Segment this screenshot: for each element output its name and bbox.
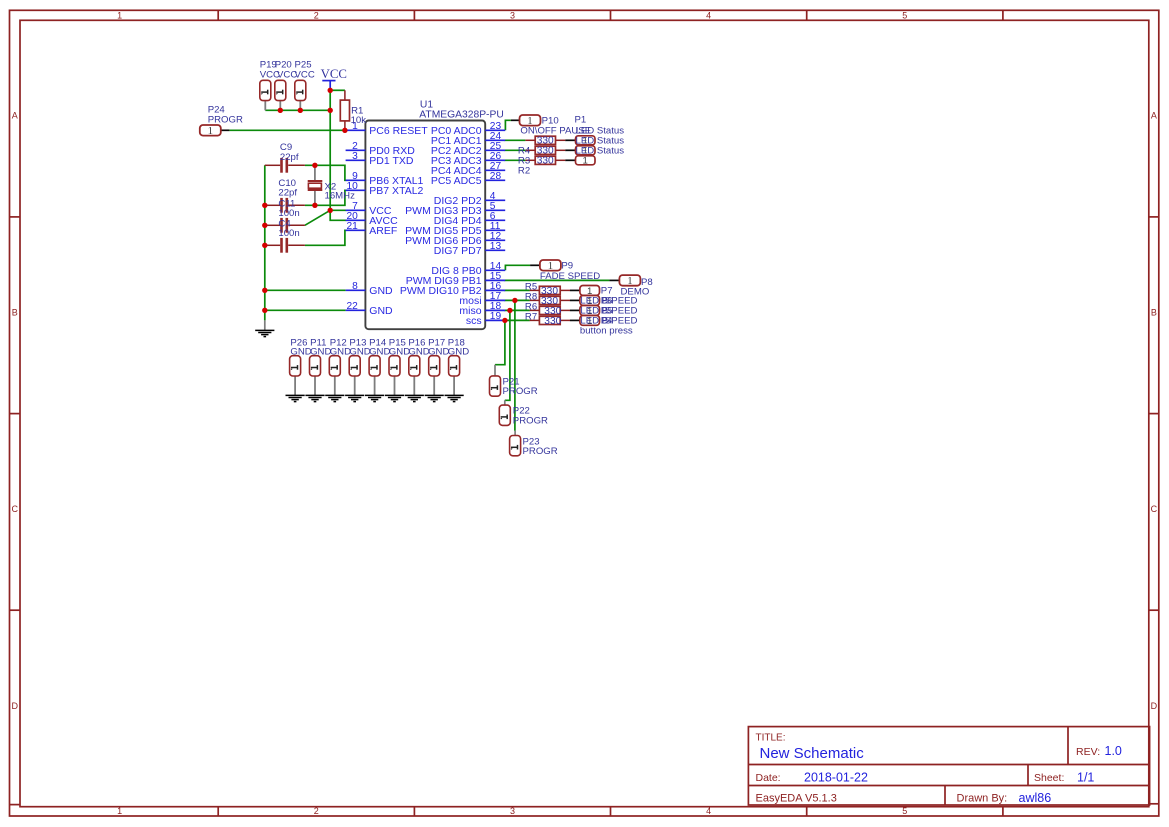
wire pin 25 to R3 xyxy=(504,149,525,151)
connector P23 PROGR xyxy=(510,436,521,456)
svg-text:C: C xyxy=(11,504,18,514)
label 22pf xyxy=(278,188,297,199)
connector P8 DEMO xyxy=(619,275,640,287)
svg-text:2: 2 xyxy=(314,806,319,816)
R4 designator xyxy=(518,145,531,156)
svg-text:PROGR: PROGR xyxy=(513,415,548,426)
svg-text:1.0: 1.0 xyxy=(1105,744,1122,758)
svg-text:PC5 ADC5: PC5 ADC5 xyxy=(431,175,482,187)
U1 pin 5 PWM DIG3 PD3 xyxy=(405,201,505,217)
svg-text:VCC: VCC xyxy=(295,69,315,80)
U1 pin 28 PC5 ADC5 xyxy=(431,171,505,187)
crystal X2 xyxy=(308,165,323,205)
U1 pin 20 AVCC xyxy=(346,211,399,227)
U1 pin 27 PC4 ADC4 xyxy=(431,161,505,177)
ground symbol P18 xyxy=(445,395,464,401)
wire pin 23 to P10 xyxy=(505,120,511,130)
svg-text:2018-01-22: 2018-01-22 xyxy=(804,771,868,785)
resistor R6 330 xyxy=(530,306,570,314)
P9 designator xyxy=(561,261,573,272)
svg-text:Drawn By:: Drawn By: xyxy=(957,793,1008,805)
svg-text:R7: R7 xyxy=(525,311,537,322)
capacitor C10 xyxy=(265,198,305,213)
svg-text:GND: GND xyxy=(369,285,393,297)
connector P25 VCC xyxy=(299,101,301,111)
wire miso down to P22 xyxy=(505,310,510,400)
P1 designator xyxy=(575,114,587,125)
wire net RESET P24 to pin 1 xyxy=(229,129,345,131)
P22 designator xyxy=(513,406,530,417)
wire R8 to P7 pin 2 xyxy=(570,299,580,301)
title block xyxy=(748,727,1149,805)
svg-text:REV:: REV: xyxy=(1076,746,1100,758)
X2 value 16MHz xyxy=(325,190,356,201)
connector P1 stack pin 3 xyxy=(576,156,596,167)
svg-text:PD1 TXD: PD1 TXD xyxy=(369,155,414,167)
svg-text:100n: 100n xyxy=(278,208,299,219)
P17 designator xyxy=(428,337,445,348)
connector P17 GND xyxy=(433,376,435,395)
wire mosi down to P23 xyxy=(514,300,516,430)
ground symbol main xyxy=(255,330,274,336)
svg-text:GND: GND xyxy=(448,346,469,357)
R3 designator xyxy=(518,155,530,166)
junction xyxy=(342,128,347,133)
svg-text:2: 2 xyxy=(314,11,319,21)
connector P7 stack pin 2 xyxy=(580,296,600,307)
svg-text:1/1: 1/1 xyxy=(1077,771,1094,785)
capacitor C4 xyxy=(265,238,305,253)
label C10 xyxy=(278,178,296,189)
label LED Status xyxy=(576,146,625,157)
U1 pin 21 AREF xyxy=(346,221,398,237)
U1 pin 26 PC3 ADC3 xyxy=(431,151,505,167)
connector P1 stack pin 2 xyxy=(576,146,596,157)
connector P7 stack pin 1 xyxy=(580,286,600,297)
junction xyxy=(507,308,512,313)
svg-text:B: B xyxy=(1151,307,1157,317)
svg-text:PROGR: PROGR xyxy=(503,386,538,397)
svg-text:22: 22 xyxy=(346,301,358,312)
label C4 xyxy=(278,219,291,230)
resistor R3 330 xyxy=(525,146,565,154)
resistor R2 330 xyxy=(525,156,565,164)
wire GND lead to ground xyxy=(264,320,266,329)
connector P24 PROGR xyxy=(221,129,229,131)
connector P12 GND xyxy=(334,376,336,395)
wire pin 18 miso to R6 xyxy=(504,309,529,311)
wire VCC to pin 20 AVCC xyxy=(330,210,346,220)
P15 designator xyxy=(389,337,406,348)
op-amp U1 ATMEGA328P-PU body xyxy=(365,121,485,330)
connector P21 PROGR xyxy=(490,376,501,396)
connector P7 stack pin 4 xyxy=(580,316,600,327)
svg-text:13: 13 xyxy=(490,241,502,252)
connector P14 GND xyxy=(374,376,376,395)
svg-text:21: 21 xyxy=(346,221,358,232)
ground symbol P16 xyxy=(405,395,424,401)
U1 pin 22 GND xyxy=(346,301,393,317)
P13 designator xyxy=(349,337,366,348)
svg-text:FADE SPEED: FADE SPEED xyxy=(540,271,600,282)
svg-text:3: 3 xyxy=(510,11,515,21)
svg-text:GND: GND xyxy=(349,346,370,357)
P15 name GND xyxy=(389,346,410,357)
P16 designator xyxy=(408,337,425,348)
wire net VCC vertical xyxy=(329,90,331,210)
connector P7 stack pin 3 xyxy=(580,306,600,317)
svg-text:10k: 10k xyxy=(351,115,367,126)
junction xyxy=(502,318,507,323)
junction xyxy=(312,203,317,208)
label LED B SPEED xyxy=(580,316,637,327)
R2 designator xyxy=(518,165,530,176)
connector P18 GND xyxy=(453,376,455,395)
connector P15 GND xyxy=(394,376,396,395)
ground symbol P11 xyxy=(305,395,324,401)
P25 designator xyxy=(295,59,312,70)
connector P19 VCC xyxy=(264,101,266,111)
P19 name VCC xyxy=(260,69,280,80)
U1 pin 1 PC6 RESET xyxy=(346,121,429,137)
U1 pin 19 scs xyxy=(466,311,505,327)
P6 designator xyxy=(601,296,613,307)
svg-text:1: 1 xyxy=(208,125,213,137)
svg-text:1: 1 xyxy=(117,806,122,816)
U1 pin 8 GND xyxy=(346,281,393,297)
wire net GND left vertical xyxy=(264,165,266,320)
resistor R7 330 xyxy=(530,316,570,324)
connector P1 stack pin 1 xyxy=(576,136,596,147)
junction xyxy=(512,298,517,303)
svg-text:Sheet:: Sheet: xyxy=(1034,772,1064,784)
connector P13 GND xyxy=(354,376,356,395)
P11 designator xyxy=(310,337,326,348)
svg-text:GND: GND xyxy=(369,305,393,317)
U1 pin 13 DIG7 PD7 xyxy=(434,241,505,257)
P18 name GND xyxy=(448,346,469,357)
wire net XTAL1 xyxy=(305,165,347,180)
junction xyxy=(262,203,267,208)
svg-text:B: B xyxy=(12,307,18,317)
wire net VCC header bus xyxy=(265,109,330,111)
resistor R8 330 xyxy=(530,296,570,304)
svg-text:C: C xyxy=(1151,504,1158,514)
svg-text:5: 5 xyxy=(902,806,907,816)
R8 designator xyxy=(525,291,537,302)
power VCC symbol xyxy=(321,67,347,91)
U1 pin 23 PC0 ADC0 xyxy=(431,121,505,137)
svg-text:New Schematic: New Schematic xyxy=(760,745,865,762)
wire pin 17 mosi to R8 xyxy=(504,299,529,301)
P14 designator xyxy=(369,337,387,348)
wire pin 24 to R4 xyxy=(504,139,525,141)
P26 name GND xyxy=(290,346,311,357)
wire net AREF C4 xyxy=(305,230,347,245)
U1 pin 7 VCC xyxy=(346,201,392,217)
resistor R5 330 xyxy=(530,286,570,294)
svg-text:GND: GND xyxy=(310,346,331,357)
svg-text:22pf: 22pf xyxy=(278,188,297,199)
P23 name PROGR xyxy=(523,446,558,457)
U1 pin 6 DIG4 PD4 xyxy=(434,211,505,227)
svg-text:PROGR: PROGR xyxy=(523,446,558,457)
svg-text:1: 1 xyxy=(627,275,632,287)
svg-text:GND: GND xyxy=(428,346,449,357)
ground symbol P13 xyxy=(345,395,364,401)
label LED B SPEED xyxy=(580,296,637,307)
U1 pin 15 PWM DIG9 PB1 xyxy=(406,271,505,287)
U1 pin 2 PD0 RXD xyxy=(346,141,416,157)
P8 designator xyxy=(641,277,653,288)
label 100n xyxy=(278,208,299,219)
wire pin 14 to P9 xyxy=(505,265,530,270)
P11 name GND xyxy=(310,346,331,357)
label button press xyxy=(580,326,633,337)
U1 pin 17 mosi xyxy=(459,291,505,307)
wire pin 15 to P8 xyxy=(504,279,609,281)
svg-text:awl86: awl86 xyxy=(1019,791,1052,805)
wire R6 to P7 pin 3 xyxy=(570,309,580,311)
U1 pin 18 miso xyxy=(459,301,505,317)
connector P22 PROGR xyxy=(499,405,510,425)
svg-text:GND: GND xyxy=(290,346,311,357)
P20 designator xyxy=(275,59,292,70)
svg-text:GND: GND xyxy=(408,346,429,357)
wire scs down to P21 xyxy=(495,320,505,364)
svg-text:16MHz: 16MHz xyxy=(325,190,356,201)
svg-text:D: D xyxy=(1151,701,1158,711)
wire C11 to VCC diagonal xyxy=(305,210,330,225)
svg-text:19: 19 xyxy=(490,311,502,322)
P9 name FADE SPEED xyxy=(540,271,600,282)
ground symbol P14 xyxy=(365,395,384,401)
P5 designator xyxy=(601,306,613,317)
label C9 xyxy=(280,142,292,153)
wire GND to pin 22 xyxy=(265,309,346,311)
svg-text:PC6 RESET: PC6 RESET xyxy=(369,125,428,137)
wire R3 to P1 pin xyxy=(565,149,575,151)
svg-text:GND: GND xyxy=(389,346,410,357)
P20 name VCC xyxy=(277,69,297,80)
junction xyxy=(312,163,317,168)
U1 pin 25 PC2 ADC2 xyxy=(431,141,505,157)
wire R4 to P1 pin xyxy=(565,139,575,141)
R6 designator xyxy=(525,301,537,312)
P7 designator xyxy=(601,286,613,297)
wire GND to pin 8 xyxy=(265,289,346,291)
svg-text:Date:: Date: xyxy=(756,772,781,784)
svg-text:R2: R2 xyxy=(518,165,530,176)
P12 name GND xyxy=(330,346,351,357)
P19 designator xyxy=(260,59,277,70)
junction xyxy=(328,208,333,213)
junction xyxy=(262,243,267,248)
label LED B SPEED xyxy=(580,306,637,317)
P25 name VCC xyxy=(295,69,315,80)
P8 name DEMO xyxy=(621,286,650,297)
P23 designator xyxy=(523,437,540,448)
U1 pin 4 DIG2 PD2 xyxy=(434,191,505,207)
svg-text:P1: P1 xyxy=(575,114,587,125)
wire R2 to P1 pin xyxy=(565,159,575,161)
U1 pin 10 PB7 XTAL2 xyxy=(346,181,424,197)
label 22pf xyxy=(280,152,299,163)
wire net XTAL2 xyxy=(305,190,347,205)
R1 value 10k xyxy=(351,115,367,126)
resistor R4 330 xyxy=(525,136,565,144)
wire VCC to R1 top xyxy=(330,89,345,91)
svg-text:PB7 XTAL2: PB7 XTAL2 xyxy=(369,185,423,197)
label C11 xyxy=(278,199,295,210)
connector P10 xyxy=(520,115,541,127)
U1 designator xyxy=(420,99,433,110)
U1 pin 14 DIG 8 PB0 xyxy=(431,261,505,277)
U1 value ATMEGA328P-PU xyxy=(419,110,504,121)
svg-text:AREF: AREF xyxy=(369,225,397,237)
label LED Status xyxy=(576,126,625,137)
wire VCC to pin 7 xyxy=(330,209,346,211)
svg-text:A: A xyxy=(12,111,18,121)
svg-text:GND: GND xyxy=(330,346,351,357)
junction xyxy=(262,288,267,293)
svg-text:TITLE:: TITLE: xyxy=(756,733,786,744)
svg-text:EasyEDA V5.1.3: EasyEDA V5.1.3 xyxy=(756,793,837,805)
U1 pin 3 PD1 TXD xyxy=(346,151,414,167)
connector P11 GND xyxy=(314,376,316,395)
svg-text:330: 330 xyxy=(537,156,554,167)
R5 designator xyxy=(525,281,537,292)
svg-text:scs: scs xyxy=(466,315,482,327)
junction xyxy=(262,308,267,313)
U1 pin 11 PWM DIG5 PD5 xyxy=(405,221,505,237)
connector P20 VCC xyxy=(279,101,281,111)
capacitor C11 xyxy=(265,218,305,233)
R1 designator xyxy=(351,105,363,116)
P24 designator xyxy=(208,104,226,115)
wire R7 to P7 pin 4 xyxy=(570,319,580,321)
capacitor C9 xyxy=(265,158,305,173)
junction xyxy=(328,108,333,113)
junction xyxy=(278,108,283,113)
svg-text:3: 3 xyxy=(352,151,358,162)
wire pin 26 to R2 xyxy=(504,159,525,161)
svg-text:GND: GND xyxy=(369,346,390,357)
ground symbol P15 xyxy=(385,395,404,401)
P21 name PROGR xyxy=(503,386,538,397)
U1 pin 9 PB6 XTAL1 xyxy=(346,171,424,187)
svg-text:LED Status: LED Status xyxy=(576,146,625,157)
wire pin 16 to R5 xyxy=(504,289,529,291)
R7 designator xyxy=(525,311,537,322)
junction xyxy=(298,108,303,113)
svg-text:4: 4 xyxy=(706,806,711,816)
wire R5 to P7 pin xyxy=(570,289,580,291)
ground symbol P26 xyxy=(286,395,305,401)
junction xyxy=(262,223,267,228)
svg-text:3: 3 xyxy=(510,806,515,816)
P16 name GND xyxy=(408,346,429,357)
ground symbol P17 xyxy=(425,395,444,401)
svg-text:DIG7 PD7: DIG7 PD7 xyxy=(434,245,482,257)
P12 designator xyxy=(330,337,347,348)
P14 name GND xyxy=(369,346,390,357)
P24 name PROGR xyxy=(208,114,243,125)
P10 designator xyxy=(542,116,559,127)
junction xyxy=(328,88,333,93)
P10 name ON\OFF PAUSE xyxy=(520,126,591,137)
svg-text:4: 4 xyxy=(706,11,711,21)
svg-text:D: D xyxy=(11,701,18,711)
wire pin 19 scs to R7 xyxy=(504,319,529,321)
U1 pin 16 PWM DIG10 PB2 xyxy=(400,281,505,297)
svg-text:VCC: VCC xyxy=(321,67,347,81)
connector P16 GND xyxy=(413,376,415,395)
P17 name GND xyxy=(428,346,449,357)
svg-text:1: 1 xyxy=(583,156,588,167)
P21 designator xyxy=(503,376,520,387)
connector P9 FADE SPEED xyxy=(540,260,561,272)
ground symbol P12 xyxy=(325,395,344,401)
svg-text:PROGR: PROGR xyxy=(208,114,243,125)
P4 designator xyxy=(601,316,613,327)
svg-text:330: 330 xyxy=(544,316,561,327)
svg-text:8: 8 xyxy=(352,281,358,292)
U1 pin 24 PC1 ADC1 xyxy=(431,131,505,147)
svg-text:1: 1 xyxy=(117,11,122,21)
P22 name PROGR xyxy=(513,415,548,426)
label LED Status xyxy=(576,136,625,147)
svg-text:button press: button press xyxy=(580,326,633,337)
svg-text:A: A xyxy=(1151,111,1157,121)
P18 designator xyxy=(448,337,465,348)
label 100n xyxy=(278,228,299,239)
svg-text:28: 28 xyxy=(490,171,502,182)
svg-text:5: 5 xyxy=(902,11,907,21)
connector P26 GND xyxy=(294,376,296,395)
resistor R1 xyxy=(340,90,349,130)
svg-text:ATMEGA328P-PU: ATMEGA328P-PU xyxy=(419,110,504,121)
P26 designator xyxy=(290,337,307,348)
svg-text:100n: 100n xyxy=(278,228,299,239)
P13 name GND xyxy=(349,346,370,357)
svg-text:22pf: 22pf xyxy=(280,152,299,163)
X2 designator xyxy=(325,181,337,192)
U1 pin 12 PWM DIG6 PD6 xyxy=(405,231,505,247)
